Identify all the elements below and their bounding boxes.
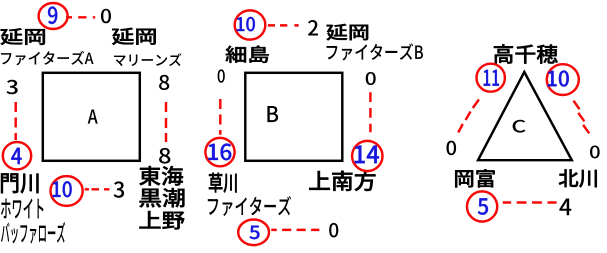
- wire: dashed link between the two 8 scores: [165, 102, 167, 142]
- score 16 (blue): [208, 143, 231, 160]
- wire: dashed diagonal circle10 to score 0: [574, 101, 590, 134]
- score circle 5 (Kusagawa Fighters): [238, 220, 269, 246]
- team Kadogawa line1: [1, 173, 39, 193]
- score circle 10 (Hososhima): [235, 10, 266, 39]
- wire: dashed link score0 down to circle16: [219, 99, 221, 135]
- score 0 (Okatomi side): [446, 141, 456, 156]
- team Kitagawa: [559, 169, 597, 187]
- score 14 (blue): [355, 145, 379, 163]
- score 0 (Fighters B side): [366, 72, 376, 85]
- score 3 (vs White Buffaloes): [114, 181, 124, 197]
- score 11 (blue): [484, 70, 499, 86]
- team Kadogawa White line2: [1, 198, 44, 218]
- team Kamiminamikata: [309, 171, 375, 192]
- wire: dashed link circle10 to score 2: [268, 24, 299, 26]
- score circle 5 (Okatomi vs Kitagawa): [467, 191, 497, 221]
- team Kadogawa Buffaloes line3: [1, 222, 65, 244]
- score circle 16 (Kusagawa): [205, 138, 234, 166]
- team Nobeoka Marines line2: [114, 53, 181, 66]
- score 0 (Hososhima side): [218, 69, 225, 82]
- team Tokai Kuroshio Ueno line3: [139, 211, 184, 229]
- team Nobeoka Fighters B line2: [326, 43, 423, 60]
- score 8 (Marines side): [159, 75, 169, 90]
- team Nobeoka (Fighters A) line1: [1, 28, 45, 45]
- score 10 (blue, Hososhima): [237, 17, 255, 31]
- block B square: [245, 73, 342, 161]
- team Nobeoka (Fighters B) line1: [326, 24, 368, 40]
- team Kusagawa line1: [209, 173, 237, 193]
- score circle 11 (Takachiho vs Okatomi): [477, 64, 505, 92]
- wire: dashed link circle5 to score 4: [503, 201, 557, 203]
- team Tokai Kuroshio Ueno line2: [139, 188, 184, 207]
- wire: dashed diagonal circle11 to score 0: [458, 100, 479, 133]
- wire: dashed link circle5 to score 0: [271, 229, 319, 231]
- wire: dashed link circle10 to score 3: [85, 188, 110, 190]
- score 10 (blue): [53, 181, 72, 197]
- team Tokai Kuroshio Ueno line1: [139, 166, 183, 186]
- team Okatomi: [455, 169, 494, 187]
- score 4 (Kitagawa side): [559, 198, 571, 215]
- score circle 10 (Kadogawa White Buffaloes): [51, 176, 83, 206]
- block C label: [513, 120, 526, 133]
- block A square: [43, 73, 140, 161]
- block B label: [267, 106, 278, 122]
- score 0 (vs Kusagawa Fighters): [329, 223, 338, 238]
- team Takachiho: [494, 44, 558, 63]
- block C triangle: [478, 72, 572, 160]
- score 2 (vs Hososhima): [308, 20, 318, 36]
- score circle 4 (Kadogawa): [3, 142, 31, 169]
- score circle 9 (Nobeoka Fighters A): [39, 3, 68, 29]
- score 8 (Tokai side): [159, 148, 170, 164]
- team Kusagawa Fighters line2: [208, 196, 291, 216]
- wire: dashed link score0 down to circle14: [369, 92, 371, 132]
- score 5 (blue, Okatomi): [478, 198, 488, 214]
- team Hososhima: [226, 46, 269, 63]
- block A label: [88, 110, 98, 124]
- team Nobeoka (Marines) line1: [112, 28, 156, 45]
- score 3 (Fighters A side): [6, 80, 17, 95]
- score 10 (blue, Takachiho): [548, 70, 569, 86]
- score 0 (Kitagawa side): [590, 146, 600, 159]
- score circle 10 (Takachiho vs Kitagawa): [547, 64, 579, 95]
- score 4 (blue): [11, 148, 21, 164]
- score 9 (blue): [48, 6, 57, 24]
- team Nobeoka Fighters A line2: [1, 51, 94, 65]
- wire: dashed link circle9 to score 0: [66, 16, 95, 18]
- wire: dashed link score3 down to circle4: [14, 102, 16, 140]
- score 5 (blue, Kusagawa): [250, 226, 260, 240]
- score 0 (vs Fighters A): [101, 9, 111, 24]
- score circle 14 (Kamiminamikata): [352, 141, 382, 171]
